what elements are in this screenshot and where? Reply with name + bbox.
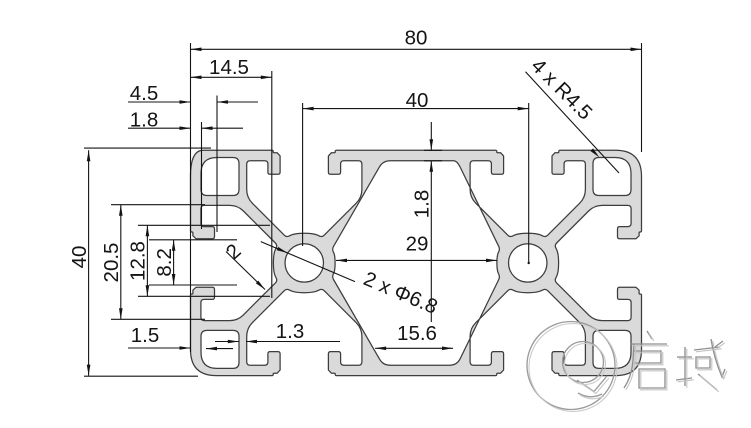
svg-text:12.8: 12.8 bbox=[127, 241, 150, 281]
svg-text:20.5: 20.5 bbox=[100, 243, 123, 283]
svg-text:1.3: 1.3 bbox=[276, 320, 305, 343]
svg-text:29: 29 bbox=[406, 233, 429, 256]
svg-text:40: 40 bbox=[68, 246, 91, 269]
svg-text:80: 80 bbox=[405, 27, 428, 50]
svg-text:4.5: 4.5 bbox=[130, 82, 159, 105]
svg-text:40: 40 bbox=[406, 89, 429, 112]
svg-text:1.5: 1.5 bbox=[131, 324, 160, 347]
svg-text:1.8: 1.8 bbox=[410, 190, 433, 219]
svg-text:1.8: 1.8 bbox=[130, 109, 159, 132]
svg-text:15.6: 15.6 bbox=[397, 322, 437, 345]
svg-text:14.5: 14.5 bbox=[209, 56, 249, 79]
svg-text:8.2: 8.2 bbox=[153, 248, 176, 277]
